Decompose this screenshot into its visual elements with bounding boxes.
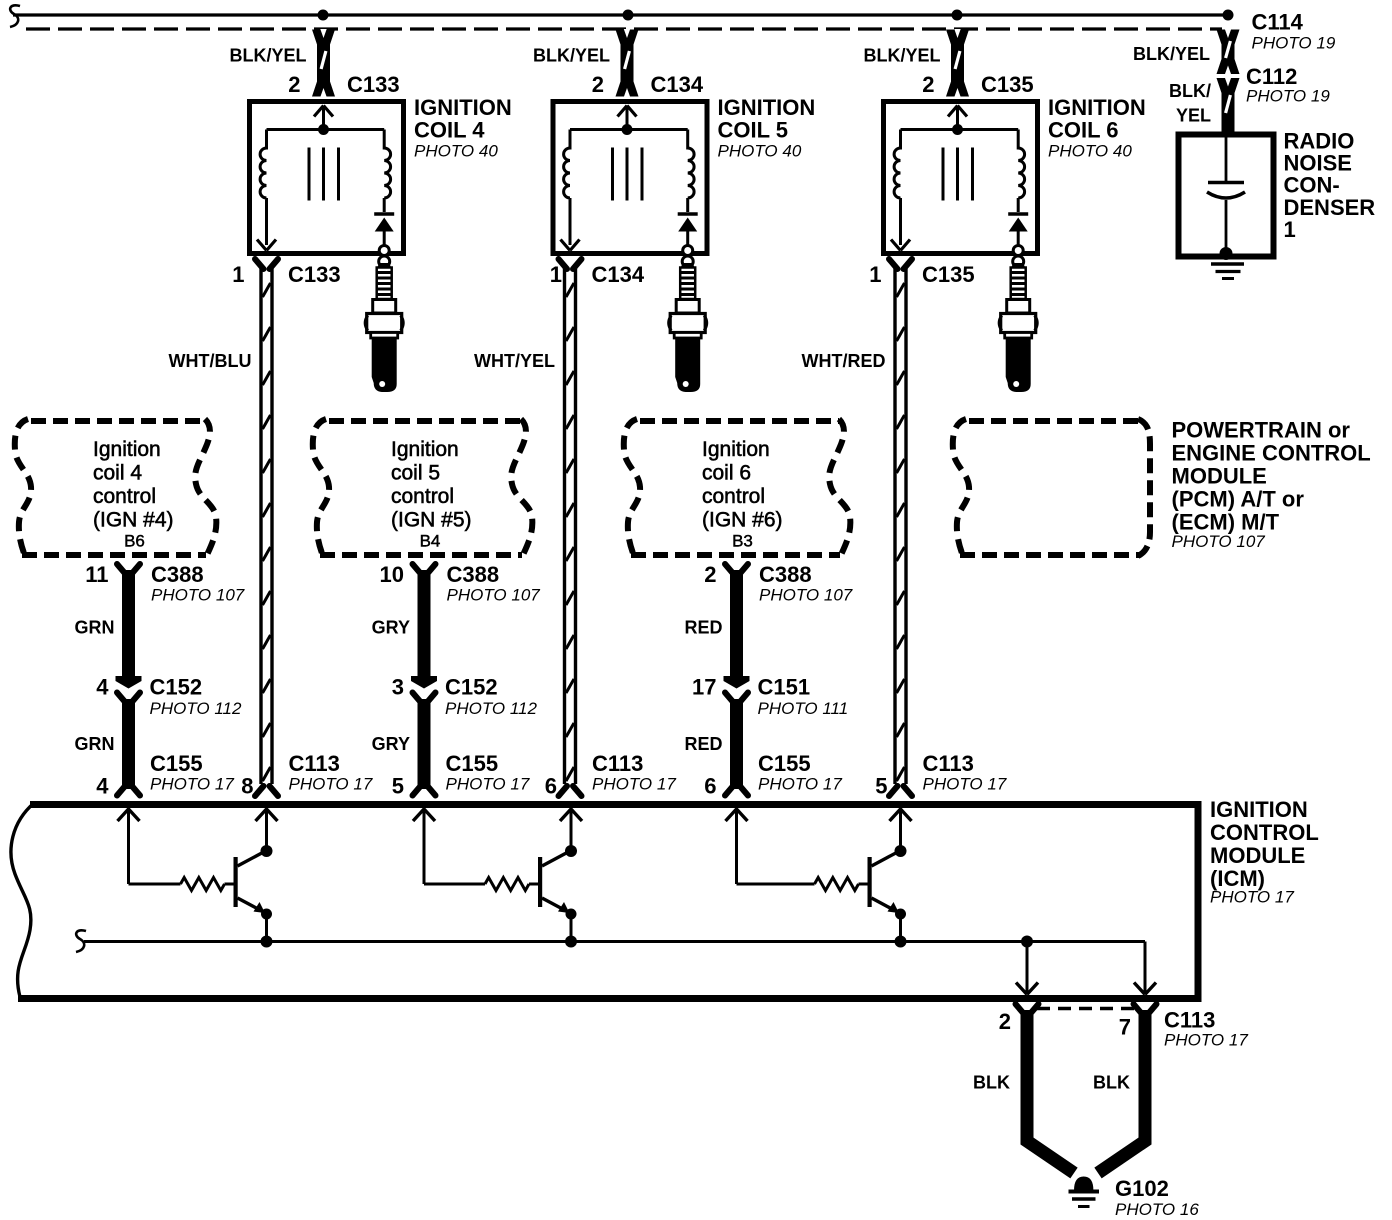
svg-text:PHOTO 17: PHOTO 17 <box>1164 1031 1248 1050</box>
wire WHT/BLU striped <box>255 259 278 796</box>
pin 2 and connector C134 label (top) <box>592 72 704 97</box>
label IGNITION COIL 5 <box>718 95 816 161</box>
svg-text:C133: C133 <box>288 262 341 287</box>
svg-text:(IGN #6): (IGN #6) <box>702 509 783 532</box>
svg-text:C388: C388 <box>759 562 812 587</box>
svg-text:control: control <box>391 485 454 508</box>
svg-text:C155: C155 <box>758 751 811 776</box>
svg-text:C155: C155 <box>446 751 499 776</box>
svg-text:PHOTO 16: PHOTO 16 <box>1115 1200 1199 1219</box>
coil 5 internal pin2 stub with arrow <box>618 106 637 136</box>
coil 5 secondary winding <box>688 130 694 213</box>
svg-text:PHOTO 111: PHOTO 111 <box>758 699 849 718</box>
svg-text:C133: C133 <box>347 72 400 97</box>
coil 6 internal top wire <box>901 128 1019 131</box>
pin 3 / connector C152 labels <box>392 675 538 719</box>
svg-text:COIL 4: COIL 4 <box>414 118 485 143</box>
svg-text:YEL: YEL <box>1176 106 1211 126</box>
svg-text:PHOTO 107: PHOTO 107 <box>151 586 245 605</box>
label IGNITION CONTROL MODULE (ICM) <box>1210 797 1319 907</box>
label ignition coil 4 control text <box>93 438 174 532</box>
svg-text:ENGINE CONTROL: ENGINE CONTROL <box>1172 441 1371 466</box>
wire ICM internal emitter bus <box>84 940 1145 943</box>
svg-text:GRN: GRN <box>75 734 115 754</box>
svg-text:C155: C155 <box>150 751 203 776</box>
svg-text:C135: C135 <box>922 262 975 287</box>
pin 17 / connector C151 labels <box>692 675 848 719</box>
svg-text:5: 5 <box>392 774 404 799</box>
wire break symbol S on ICM bus <box>76 930 86 952</box>
svg-text:2: 2 <box>922 72 934 97</box>
wire BLK/YEL drop at C114 <box>1217 29 1240 75</box>
pin 1 and connector C135 label (bottom) <box>869 262 974 287</box>
pin 1 and connector C133 label (bottom) <box>232 262 340 287</box>
wire BLK from pin 2 to G102 <box>1016 1004 1075 1173</box>
svg-text:WHT/RED: WHT/RED <box>802 351 886 371</box>
pin 7 label below ICM <box>1119 1015 1131 1040</box>
svg-text:COIL 5: COIL 5 <box>718 118 789 143</box>
wire BLK/YEL drop at C112 <box>1217 78 1240 136</box>
pin B4 label <box>420 532 441 551</box>
wire base feed Q2 <box>424 808 485 884</box>
svg-text:IGNITION: IGNITION <box>1048 95 1146 120</box>
svg-text:PHOTO 40: PHOTO 40 <box>414 142 498 161</box>
svg-text:BLK/YEL: BLK/YEL <box>1133 44 1210 64</box>
svg-text:IGNITION: IGNITION <box>1210 797 1308 822</box>
svg-text:PHOTO 107: PHOTO 107 <box>447 586 541 605</box>
svg-text:PHOTO 107: PHOTO 107 <box>1172 532 1266 551</box>
resistor base Q1 <box>181 878 235 891</box>
wire BLK from pin 7 to G102 <box>1098 1004 1157 1173</box>
label ignition coil 6 control text <box>702 438 783 532</box>
svg-text:PHOTO 19: PHOTO 19 <box>1252 34 1336 53</box>
label IGNITION COIL 6 <box>1048 95 1146 161</box>
svg-text:4: 4 <box>96 675 109 700</box>
label wire color RED upper <box>684 618 722 638</box>
svg-text:IGNITION: IGNITION <box>414 95 512 120</box>
svg-text:PHOTO 40: PHOTO 40 <box>718 142 802 161</box>
label C112 <box>1246 64 1330 106</box>
svg-text:(IGN #5): (IGN #5) <box>391 509 472 532</box>
svg-text:control: control <box>702 485 765 508</box>
svg-text:10: 10 <box>380 562 404 587</box>
svg-text:CONTROL: CONTROL <box>1210 820 1319 845</box>
svg-text:BLK/: BLK/ <box>1169 81 1211 101</box>
ignition control module ICM box <box>11 801 1202 1002</box>
coil 4 core lines <box>309 148 339 201</box>
ICM input arrow at x=266.5 <box>256 809 278 821</box>
node junction C on top bus <box>952 10 963 21</box>
PCM output: ignition coil 6 control dashed box <box>624 419 851 557</box>
label wire color RED lower <box>684 734 722 754</box>
svg-text:C113: C113 <box>1164 1008 1215 1033</box>
svg-text:COIL 6: COIL 6 <box>1048 118 1119 143</box>
label wire color GRY lower <box>372 734 410 754</box>
dashed link between pin 2 and pin 7 connectors <box>1037 1007 1136 1011</box>
label IGNITION COIL 4 <box>414 95 512 161</box>
node junction on bus for pin 2 <box>1021 936 1033 948</box>
svg-text:C135: C135 <box>981 72 1034 97</box>
wire dashed top bus <box>26 27 1222 30</box>
coil 4 internal top wire <box>267 128 385 131</box>
coil 5 internal top wire <box>570 128 688 131</box>
svg-text:WHT/BLU: WHT/BLU <box>169 351 252 371</box>
pin 6 / connector C113 labels <box>545 751 677 799</box>
svg-text:1: 1 <box>869 262 881 287</box>
svg-text:2: 2 <box>288 72 300 97</box>
radio noise condenser 1 box <box>1179 135 1274 257</box>
diode inside coil 6 <box>1008 214 1028 246</box>
svg-text:RED: RED <box>684 734 722 754</box>
transistor Q1 <box>234 851 267 914</box>
node junction A on top bus <box>318 10 329 21</box>
pin 2 and connector C135 label (top) <box>922 72 1033 97</box>
label G102 <box>1115 1176 1199 1219</box>
label BLK right <box>1093 1073 1130 1093</box>
svg-text:5: 5 <box>875 774 887 799</box>
svg-text:C113: C113 <box>592 751 643 776</box>
svg-text:coil 5: coil 5 <box>391 462 440 485</box>
wire bus down to ICM pin 7 <box>1134 942 1156 995</box>
pin 6 / connector C155 labels <box>704 751 842 799</box>
wire GRY lower segment below C152 <box>413 693 436 796</box>
wire emitter of Q1 to bus <box>261 909 273 948</box>
wire collector of Q3 to pin <box>895 808 907 857</box>
svg-text:PHOTO 17: PHOTO 17 <box>592 775 676 794</box>
svg-text:PHOTO 17: PHOTO 17 <box>923 775 1007 794</box>
wire collector of Q2 to pin <box>565 808 577 857</box>
svg-text:BLK/YEL: BLK/YEL <box>863 46 940 66</box>
label POWERTRAIN or ENGINE CONTROL MODULE <box>1172 418 1371 552</box>
ICM input arrow at x=736.5 <box>726 809 748 821</box>
spark plug for coil 5 <box>669 246 707 393</box>
svg-text:C151: C151 <box>758 675 811 700</box>
svg-text:6: 6 <box>545 774 557 799</box>
svg-text:BLK/YEL: BLK/YEL <box>229 46 306 66</box>
svg-text:Ignition: Ignition <box>702 438 770 461</box>
svg-text:C134: C134 <box>651 72 704 97</box>
pin 8 / connector C113 labels <box>241 751 373 799</box>
pin 2 and connector C133 label (top) <box>288 72 399 97</box>
svg-text:(ECM) M/T: (ECM) M/T <box>1172 510 1280 535</box>
svg-text:IGNITION: IGNITION <box>718 95 816 120</box>
svg-text:3: 3 <box>392 675 404 700</box>
svg-text:PHOTO 17: PHOTO 17 <box>1210 888 1294 907</box>
pin 4 / connector C152 labels <box>96 675 242 719</box>
svg-text:WHT/YEL: WHT/YEL <box>474 351 555 371</box>
coil 6 internal pin2 stub with arrow <box>948 106 967 136</box>
svg-text:BLK/YEL: BLK/YEL <box>533 46 610 66</box>
wire GRY from B4 to C152: connector C388 <box>411 564 437 689</box>
diode inside coil 5 <box>678 214 698 246</box>
label BLK/YEL wire color coil 6 <box>863 46 940 66</box>
pin 2 label below ICM <box>999 1009 1011 1034</box>
svg-text:C388: C388 <box>151 562 204 587</box>
wire base feed Q1 <box>129 808 181 884</box>
resistor base Q3 <box>815 878 869 891</box>
capacitor symbol inside condenser <box>1207 137 1245 250</box>
svg-text:MODULE: MODULE <box>1210 843 1305 868</box>
svg-text:B3: B3 <box>732 532 753 551</box>
svg-text:1: 1 <box>550 262 562 287</box>
svg-text:2: 2 <box>704 562 716 587</box>
svg-text:1: 1 <box>1284 217 1296 242</box>
label ignition coil 5 control text <box>391 438 472 532</box>
svg-text:MODULE: MODULE <box>1172 464 1267 489</box>
pin 2 / connector C388 labels <box>704 562 853 605</box>
label WHT/RED <box>802 351 886 371</box>
svg-text:11: 11 <box>85 562 108 587</box>
connector C113 label below ICM <box>1164 1008 1248 1050</box>
svg-text:BLK: BLK <box>973 1073 1010 1093</box>
svg-text:coil 4: coil 4 <box>93 462 142 485</box>
svg-text:17: 17 <box>692 675 716 700</box>
label WHT/YEL <box>474 351 555 371</box>
wire solid top bus <box>13 13 1233 16</box>
ICM input arrow at x=900.5 <box>890 809 912 821</box>
pin 4 / connector C155 labels <box>96 751 234 799</box>
svg-text:(PCM) A/T or: (PCM) A/T or <box>1172 487 1305 512</box>
ground G102 symbol <box>1069 1177 1100 1207</box>
svg-text:2: 2 <box>592 72 604 97</box>
svg-text:GRY: GRY <box>372 618 410 638</box>
wire collector of Q1 to pin <box>261 808 273 857</box>
wire GRN from B6 to C152: connector C388 <box>116 564 142 689</box>
svg-text:GRY: GRY <box>372 734 410 754</box>
svg-text:RED: RED <box>684 618 722 638</box>
pin 10 / connector C388 labels <box>380 562 541 605</box>
svg-text:PHOTO 112: PHOTO 112 <box>150 699 243 718</box>
wire BLK/YEL drop to ignition coil 5 pin 2 <box>616 29 639 97</box>
spark plug for coil 4 <box>365 246 403 393</box>
svg-text:Ignition: Ignition <box>391 438 459 461</box>
label BLK left <box>973 1073 1010 1093</box>
svg-text:4: 4 <box>96 774 109 799</box>
label RADIO NOISE CONDENSER 1 <box>1284 129 1376 243</box>
svg-text:C112: C112 <box>1246 64 1297 89</box>
wire bus down to ICM pin 2 <box>1016 942 1038 995</box>
svg-text:G102: G102 <box>1115 1176 1169 1201</box>
wire GRN lower segment below C152 <box>117 693 140 796</box>
svg-text:POWERTRAIN or: POWERTRAIN or <box>1172 418 1351 443</box>
ICM input arrow at x=128.5 <box>118 809 140 821</box>
label BLK/ YEL two-line <box>1169 81 1211 126</box>
pin 1 and connector C134 label (bottom) <box>550 262 645 287</box>
wire WHT/YEL striped <box>559 259 582 796</box>
wire RED from B3 to C152: connector C388 <box>724 564 750 689</box>
ignition coil 4 box <box>250 102 404 254</box>
transistor Q2 <box>538 851 571 914</box>
ignition coil 6 box <box>884 102 1038 254</box>
svg-text:Ignition: Ignition <box>93 438 161 461</box>
svg-text:BLK: BLK <box>1093 1073 1130 1093</box>
wire break symbol S top-left <box>10 5 20 27</box>
label C114 <box>1252 10 1336 53</box>
svg-text:C152: C152 <box>150 675 203 700</box>
wire BLK/YEL drop to ignition coil 4 pin 2 <box>312 29 335 97</box>
label BLK/YEL wire color coil 5 <box>533 46 610 66</box>
svg-text:PHOTO 107: PHOTO 107 <box>759 586 853 605</box>
svg-text:C134: C134 <box>592 262 645 287</box>
svg-text:C388: C388 <box>447 562 500 587</box>
wire emitter of Q2 to bus <box>565 909 577 948</box>
svg-text:C114: C114 <box>1252 10 1304 35</box>
label wire color GRN lower <box>75 734 115 754</box>
label wire color GRN upper <box>75 618 115 638</box>
svg-text:DENSER: DENSER <box>1284 195 1376 220</box>
svg-text:B4: B4 <box>420 532 441 551</box>
svg-text:B6: B6 <box>124 532 145 551</box>
svg-text:PHOTO 17: PHOTO 17 <box>150 775 234 794</box>
svg-text:(IGN #4): (IGN #4) <box>93 509 174 532</box>
wire BLK/YEL drop to ignition coil 6 pin 2 <box>946 29 969 97</box>
coil 5 core lines <box>613 148 643 201</box>
pin 5 / connector C155 labels <box>392 751 530 799</box>
wire RED lower segment below C151 <box>725 693 748 796</box>
svg-text:C113: C113 <box>289 751 340 776</box>
coil 5 primary winding <box>561 130 580 251</box>
transistor Q3 <box>868 851 901 914</box>
svg-text:C152: C152 <box>445 675 498 700</box>
coil 6 primary winding <box>891 130 910 251</box>
pin 11 / connector C388 labels <box>85 562 245 605</box>
pin B3 label <box>732 532 753 551</box>
svg-text:PHOTO 17: PHOTO 17 <box>289 775 373 794</box>
PCM output: ignition coil 4 control dashed box <box>15 419 217 557</box>
svg-text:8: 8 <box>241 774 253 799</box>
svg-text:PHOTO 19: PHOTO 19 <box>1246 87 1330 106</box>
ICM input arrow at x=571.0 <box>560 809 582 821</box>
label BLK/YEL wire color coil 4 <box>229 46 306 66</box>
coil 4 primary winding <box>257 130 276 251</box>
svg-text:coil 6: coil 6 <box>702 462 751 485</box>
svg-text:1: 1 <box>232 262 244 287</box>
svg-text:6: 6 <box>704 774 716 799</box>
label BLK/YEL top right <box>1133 44 1210 64</box>
ICM input arrow at x=424.0 <box>413 809 435 821</box>
spark plug for coil 6 <box>999 246 1037 393</box>
label WHT/BLU <box>169 351 252 371</box>
svg-text:PHOTO 17: PHOTO 17 <box>758 775 842 794</box>
ignition coil 5 box <box>553 102 707 254</box>
svg-text:2: 2 <box>999 1009 1011 1034</box>
svg-text:PHOTO 40: PHOTO 40 <box>1048 142 1132 161</box>
node junction B on top bus <box>623 10 634 21</box>
pin B6 label <box>124 532 145 551</box>
coil 6 secondary winding <box>1018 130 1024 213</box>
PCM/ECM dashed box <box>953 419 1150 556</box>
wire base feed Q3 <box>737 808 815 884</box>
PCM output: ignition coil 5 control dashed box <box>313 419 533 557</box>
pin 5 / connector C113 labels <box>875 751 1007 799</box>
wire WHT/RED striped <box>889 259 912 796</box>
svg-text:control: control <box>93 485 156 508</box>
node junction D on top bus <box>1223 10 1234 21</box>
svg-text:GRN: GRN <box>75 618 115 638</box>
svg-text:PHOTO 112: PHOTO 112 <box>445 699 538 718</box>
condenser ground node <box>1211 247 1244 279</box>
svg-text:C113: C113 <box>923 751 974 776</box>
wire emitter of Q3 to bus <box>895 909 907 948</box>
svg-text:7: 7 <box>1119 1015 1131 1040</box>
label wire color GRY upper <box>372 618 410 638</box>
coil 4 internal pin2 stub with arrow <box>314 106 333 136</box>
coil 6 core lines <box>943 148 973 201</box>
resistor base Q2 <box>485 878 539 891</box>
svg-text:PHOTO 17: PHOTO 17 <box>446 775 530 794</box>
diode inside coil 4 <box>374 214 394 246</box>
coil 4 secondary winding <box>384 130 390 213</box>
